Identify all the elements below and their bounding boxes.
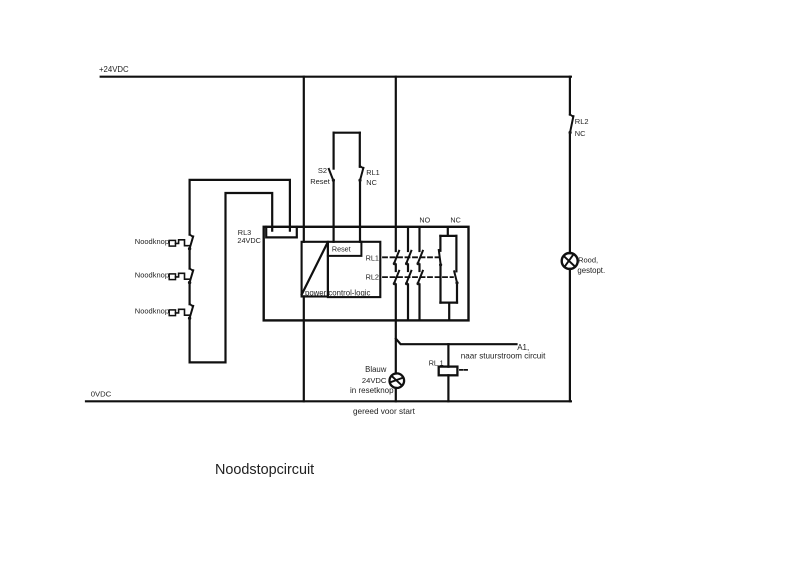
svg-text:NC: NC [575, 129, 586, 138]
svg-text:A1,: A1, [517, 343, 529, 352]
svg-text:gestopt.: gestopt. [577, 266, 605, 275]
svg-text:Reset: Reset [332, 244, 351, 253]
svg-text:power control-logic: power control-logic [305, 288, 371, 297]
svg-text:S2: S2 [318, 166, 327, 175]
svg-text:gereed voor start: gereed voor start [353, 407, 416, 416]
svg-text:Noodknop: Noodknop [135, 270, 169, 279]
svg-text:RL1: RL1 [366, 253, 379, 262]
svg-text:RL 1: RL 1 [429, 358, 444, 367]
svg-text:Noodknop: Noodknop [135, 307, 169, 316]
svg-text:naar stuurstroom circuit: naar stuurstroom circuit [461, 352, 546, 361]
svg-text:in resetknop: in resetknop [350, 386, 394, 395]
svg-text:Blauw: Blauw [365, 365, 387, 374]
svg-text:NC: NC [366, 178, 377, 187]
svg-text:Noodstopcircuit: Noodstopcircuit [215, 462, 314, 478]
svg-text:24VDC: 24VDC [362, 376, 387, 385]
svg-text:Reset: Reset [310, 177, 331, 186]
svg-text:RL1: RL1 [366, 168, 379, 177]
svg-text:Noodknop: Noodknop [135, 237, 169, 246]
svg-text:RL2: RL2 [366, 273, 379, 282]
svg-text:Rood,: Rood, [578, 256, 598, 265]
svg-text:0VDC: 0VDC [91, 390, 112, 399]
svg-text:+24VDC: +24VDC [99, 65, 129, 74]
svg-text:NO: NO [419, 216, 430, 225]
svg-text:RL2: RL2 [575, 117, 589, 126]
svg-text:NC: NC [450, 216, 460, 225]
svg-text:24VDC: 24VDC [237, 236, 261, 245]
